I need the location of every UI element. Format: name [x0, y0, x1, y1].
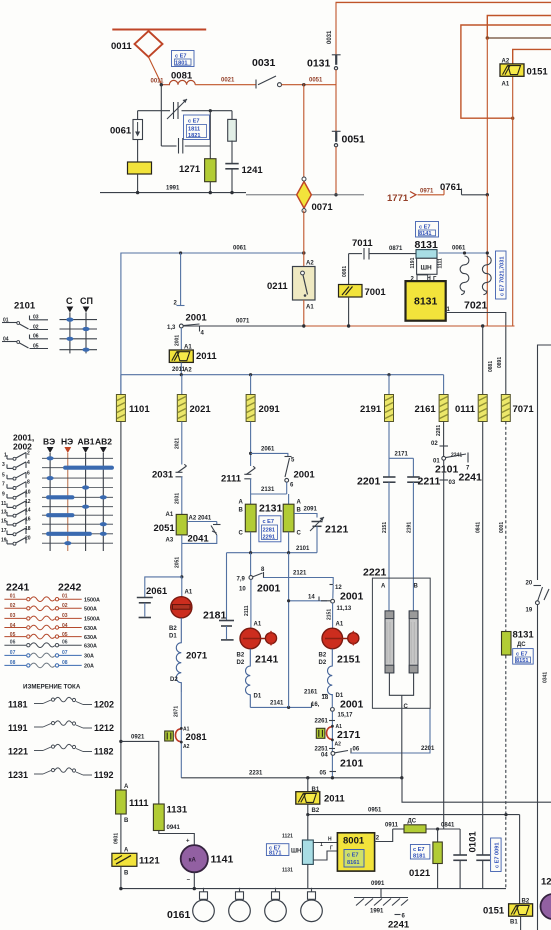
- svg-text:0111: 0111: [455, 404, 476, 415]
- series capacitor lower: [161, 111, 210, 154]
- wire 2191 below fuse: [388, 422, 390, 478]
- relay coil 0151 (top): [500, 64, 524, 76]
- svg-text:04: 04: [321, 753, 328, 759]
- svg-text:1121: 1121: [139, 856, 160, 867]
- shunt 2171: [316, 725, 334, 742]
- svg-text:0941: 0941: [167, 825, 181, 831]
- svg-text:12: 12: [541, 877, 551, 888]
- wire to relay: [180, 328, 182, 350]
- pin 12: [330, 585, 343, 599]
- svg-text:A3: A3: [166, 538, 174, 544]
- svg-text:2141: 2141: [270, 701, 284, 707]
- brake resistor block 2221 outline: [372, 578, 430, 708]
- wire B tap to capacitor 2121: [294, 514, 317, 518]
- svg-text:0071: 0071: [236, 319, 250, 325]
- resistor 1271: [205, 111, 216, 193]
- svg-text:0031: 0031: [252, 57, 276, 69]
- wire below 0151: [520, 916, 522, 930]
- svg-text:с Е7: с Е7: [516, 652, 528, 658]
- svg-text:20: 20: [526, 581, 533, 587]
- wire 2161 below fuse (2281): [443, 422, 445, 457]
- contact 2001 (1,3-4): [167, 324, 205, 337]
- svg-text:2241: 2241: [459, 472, 483, 484]
- wire 0051 to vertical: [282, 84, 337, 86]
- svg-text:D2: D2: [237, 660, 245, 666]
- svg-text:ШН: ШН: [421, 265, 433, 272]
- contact 2101 row 1: [2, 315, 48, 331]
- long vertical 0881 feeder: [486, 38, 488, 195]
- svg-text:18: 18: [25, 526, 31, 532]
- svg-text:ДС: ДС: [408, 819, 417, 825]
- svg-text:19: 19: [1, 537, 7, 543]
- svg-text:20А: 20А: [84, 664, 94, 670]
- svg-text:0931: 0931: [114, 833, 120, 844]
- label box c E7 8181: [410, 845, 430, 860]
- svg-text:2111: 2111: [244, 605, 250, 616]
- svg-text:8131: 8131: [414, 296, 438, 308]
- surge arrester 0061: [133, 111, 143, 162]
- С / СП table: [60, 296, 98, 353]
- svg-text:15: 15: [1, 518, 7, 524]
- svg-text:0991: 0991: [371, 881, 385, 887]
- svg-text:2001: 2001: [294, 470, 316, 481]
- wire 0061 right segment: [439, 252, 488, 254]
- svg-text:0001: 0001: [499, 522, 505, 533]
- capacitor at 2061: [137, 598, 153, 618]
- svg-text:0841: 0841: [476, 522, 482, 533]
- svg-text:1221: 1221: [8, 747, 28, 757]
- ground nodes: [136, 191, 139, 194]
- label box c E7 0091 rotated: [491, 838, 502, 872]
- pantograph 0011 (diamond): [135, 31, 163, 57]
- svg-text:2151: 2151: [382, 522, 388, 533]
- svg-text:A: A: [239, 500, 244, 506]
- svg-text:1500А: 1500А: [84, 598, 100, 604]
- relay 2011: [169, 350, 193, 362]
- bus 0071 orange part: [304, 325, 515, 327]
- svg-text:7001: 7001: [365, 287, 387, 298]
- bypass contactor 2041: [182, 522, 221, 544]
- capacitor 1241: [225, 164, 238, 193]
- svg-text:06: 06: [10, 640, 16, 646]
- svg-text:2101: 2101: [435, 464, 459, 476]
- contact 2101 (04-06): [321, 747, 360, 759]
- svg-text:0101: 0101: [468, 831, 479, 853]
- wire 7001 vertical: [348, 254, 350, 285]
- svg-text:19: 19: [526, 608, 533, 614]
- svg-text:2221: 2221: [363, 567, 387, 579]
- label box c E7 1811 1821: [184, 115, 210, 140]
- svg-text:0061: 0061: [233, 246, 247, 252]
- svg-text:8131: 8131: [513, 630, 535, 641]
- svg-text:08: 08: [10, 660, 16, 666]
- svg-text:A1: A1: [166, 512, 174, 518]
- ground line 1991: [100, 192, 246, 194]
- svg-text:A1: A1: [336, 622, 344, 628]
- wire 0971 red: [418, 189, 445, 195]
- node 7001: [347, 324, 350, 327]
- svg-text:2021: 2021: [190, 404, 212, 415]
- node: [306, 813, 309, 816]
- svg-text:5: 5: [2, 472, 5, 478]
- node at 512.7,118.2: [511, 117, 514, 120]
- svg-text:0211: 0211: [267, 281, 288, 292]
- ground bus 0991: [121, 888, 506, 890]
- svg-text:2241: 2241: [388, 920, 410, 930]
- svg-text:2121: 2121: [293, 571, 307, 577]
- table rows with contacts: [42, 458, 113, 543]
- svg-text:1241: 1241: [242, 165, 264, 176]
- svg-text:1101: 1101: [129, 404, 150, 415]
- wire 0071 branch down to 0211: [303, 211, 305, 267]
- label box c E7 2281 2291: [259, 516, 281, 542]
- wire 7001 to bus: [348, 297, 350, 326]
- svg-text:A1: A1: [306, 305, 314, 311]
- svg-text:13: 13: [1, 509, 7, 515]
- switch 0131: [332, 55, 341, 70]
- svg-text:2101: 2101: [14, 301, 36, 312]
- svg-text:0871: 0871: [389, 246, 403, 252]
- node at main wire: [160, 83, 163, 86]
- svg-text:A2: A2: [306, 261, 314, 267]
- disconnector 0071 (diamond): [297, 177, 312, 213]
- svg-text:C: C: [297, 531, 302, 537]
- ammeter 1141: [181, 845, 208, 872]
- svg-text:500А: 500А: [84, 607, 97, 613]
- label box c E7 8171: [266, 844, 289, 857]
- svg-text:05: 05: [62, 632, 68, 638]
- svg-text:1192: 1192: [94, 770, 114, 780]
- capacitor 2201: [383, 477, 396, 611]
- svg-text:2131: 2131: [259, 503, 283, 515]
- fuse rows: [4, 594, 100, 670]
- winding 7021 coil b: [482, 256, 491, 295]
- svg-text:0761: 0761: [440, 182, 462, 193]
- svg-text:2111: 2111: [221, 474, 242, 485]
- svg-text:4: 4: [27, 460, 30, 466]
- svg-text:1121: 1121: [282, 834, 293, 840]
- wire to ground bus: [120, 866, 122, 888]
- wire ammeter to ground bus: [193, 872, 195, 888]
- svg-text:05: 05: [10, 632, 16, 638]
- svg-text:7071: 7071: [513, 404, 535, 415]
- svg-text:18: 18: [322, 695, 329, 701]
- svg-text:с Е7 7021,7031: с Е7 7021,7031: [500, 256, 506, 296]
- capacitor 2211: [407, 458, 420, 611]
- field winding of 2141: [246, 649, 251, 708]
- column headers: [43, 437, 112, 454]
- svg-text:30А: 30А: [84, 654, 94, 660]
- wire 2101 line: [227, 532, 318, 553]
- svg-text:1991: 1991: [370, 909, 384, 915]
- wire 2021 below fuse: [181, 422, 183, 465]
- transformer winding ШН box: [410, 250, 444, 283]
- svg-text:кА: кА: [189, 858, 197, 864]
- resistor element B: [409, 611, 418, 673]
- svg-text:10: 10: [239, 587, 246, 593]
- wire 0921: [121, 741, 159, 804]
- variable capacitor: [167, 99, 196, 119]
- contact 2001 (5-6): [285, 457, 296, 489]
- wire 11,13 to motor 2151: [332, 603, 334, 628]
- capacitor 2181: [219, 553, 234, 640]
- svg-text:2161: 2161: [304, 690, 318, 696]
- vertical 512.7 down to bus 0071: [512, 76, 514, 326]
- wire down to 2081: [180, 692, 182, 778]
- svg-text:0051: 0051: [342, 134, 366, 146]
- svg-text:1: 1: [320, 842, 323, 848]
- svg-text:630А: 630А: [84, 626, 97, 632]
- bus 2011: [121, 374, 444, 376]
- contact 2001 (16,18-15,17): [311, 695, 353, 719]
- motor 2061: [171, 597, 192, 618]
- svg-text:2201: 2201: [357, 476, 381, 488]
- svg-text:D1: D1: [169, 634, 177, 640]
- svg-text:B1: B1: [510, 920, 518, 926]
- svg-text:20: 20: [25, 535, 31, 541]
- wire to 1241 branch: [196, 110, 232, 112]
- tick 05: [330, 771, 337, 773]
- svg-text:8: 8: [27, 480, 30, 486]
- node main wire to 0071 branch: [302, 83, 305, 86]
- svg-text:0881: 0881: [488, 361, 494, 372]
- svg-text:630А: 630А: [84, 643, 97, 649]
- svg-text:ДС: ДС: [517, 642, 526, 648]
- svg-text:06: 06: [62, 640, 68, 646]
- svg-text:2121: 2121: [325, 524, 349, 536]
- svg-text:0061: 0061: [110, 126, 132, 137]
- relay 1121: [112, 853, 137, 866]
- svg-text:+: +: [186, 839, 190, 845]
- svg-text:с Е7: с Е7: [263, 519, 275, 525]
- wire 0051 down to 0071 line: [335, 147, 337, 195]
- svg-text:ИЗМЕРЕНИЕ ТОКА: ИЗМЕРЕНИЕ ТОКА: [23, 684, 81, 691]
- svg-text:2242: 2242: [58, 582, 82, 594]
- arrester ground box (yellow): [128, 162, 152, 174]
- svg-text:03: 03: [62, 613, 68, 619]
- svg-text:1191: 1191: [8, 723, 28, 733]
- svg-text:ШН: ШН: [291, 849, 301, 855]
- wire down chain: [331, 711, 333, 778]
- node 0061 at 0211: [302, 251, 305, 254]
- svg-text:A2 2041: A2 2041: [189, 516, 212, 522]
- arrow of 1771: [410, 192, 416, 199]
- svg-text:D1: D1: [254, 694, 262, 700]
- nodes on ground bus: [193, 887, 196, 890]
- svg-text:A1: A1: [502, 82, 510, 88]
- svg-text:0121: 0121: [409, 868, 431, 879]
- wire 2061 to 2001 contact 5-6: [251, 453, 288, 456]
- node 2001 pin2 branch: [179, 251, 182, 254]
- wire from main bus down to 0071: [303, 84, 305, 179]
- motor 2141: [240, 628, 277, 649]
- feeder continues down: [486, 195, 488, 326]
- wire to 2051: [181, 477, 183, 515]
- svg-text:0971: 0971: [420, 189, 434, 195]
- svg-text:2031: 2031: [152, 470, 174, 481]
- svg-text:2051: 2051: [175, 557, 181, 568]
- node 2061 wire branch: [249, 452, 252, 455]
- svg-text:A2: A2: [335, 742, 342, 748]
- fuse rating labels: [84, 598, 100, 670]
- node: [334, 193, 337, 196]
- switch 2111: [244, 466, 255, 479]
- svg-text:с Е7: с Е7: [413, 847, 425, 853]
- svg-text:2191: 2191: [407, 522, 413, 533]
- svg-text:A2: A2: [184, 368, 192, 374]
- wire pin14 link: [289, 600, 327, 602]
- svg-text:Г: Г: [330, 846, 333, 852]
- wire 0061 left segment: [121, 253, 304, 395]
- wire 2161 drop: [443, 375, 445, 395]
- wire 0841 chain down: [443, 460, 445, 829]
- svg-text:12: 12: [25, 499, 31, 505]
- svg-text:2091: 2091: [304, 507, 318, 513]
- variable capacitor 2121: [310, 517, 324, 553]
- wire 0341 down: [537, 605, 539, 930]
- node 2061 branch: [180, 575, 183, 578]
- svg-text:1991: 1991: [166, 186, 180, 192]
- svg-text:B: B: [124, 818, 129, 824]
- wire 0131 to 0051: [335, 70, 337, 132]
- svg-text:2001: 2001: [340, 591, 364, 603]
- svg-text:2011: 2011: [196, 351, 217, 362]
- tick 14: [318, 597, 320, 602]
- wire 2021 drop: [181, 375, 183, 395]
- resistor 2051: [176, 514, 187, 535]
- svg-text:0061: 0061: [452, 246, 466, 252]
- svg-text:1212: 1212: [94, 723, 114, 733]
- svg-text:03: 03: [10, 613, 16, 619]
- fuse 0111: [478, 395, 487, 422]
- svg-text:1271: 1271: [179, 164, 201, 175]
- svg-text:B2: B2: [237, 653, 245, 659]
- svg-text:АВ1: АВ1: [78, 437, 95, 447]
- svg-text:2011: 2011: [324, 794, 345, 805]
- contact 2001 (7,9-10): [237, 553, 266, 593]
- svg-text:0341: 0341: [543, 672, 549, 683]
- svg-text:2151: 2151: [337, 654, 361, 666]
- wire 0111 drop from orange bus: [482, 326, 484, 395]
- wire y=25 with drop to y=118: [461, 25, 551, 118]
- bus 2231: [181, 777, 401, 779]
- node vertical rise: [287, 706, 290, 709]
- svg-text:07: 07: [62, 650, 68, 656]
- svg-text:04: 04: [62, 623, 68, 629]
- svg-text:−: −: [187, 878, 191, 884]
- svg-text:B2: B2: [312, 808, 320, 814]
- svg-text:2031: 2031: [175, 493, 181, 504]
- svg-text:11,13: 11,13: [337, 606, 352, 612]
- svg-text:08: 08: [62, 660, 68, 666]
- pin 6 / 2241: [388, 914, 410, 930]
- svg-text:8141: 8141: [419, 231, 431, 237]
- svg-text:0131: 0131: [307, 58, 331, 70]
- svg-text:2041: 2041: [188, 534, 210, 545]
- svg-text:2001: 2001: [257, 583, 281, 595]
- svg-text:0151: 0151: [527, 67, 549, 78]
- vertical link C-14-2141: [288, 553, 290, 708]
- node 0111 branch: [481, 324, 484, 327]
- relay 2011 (B coil): [296, 778, 320, 814]
- svg-text:7021: 7021: [464, 300, 488, 312]
- svg-text:7,9: 7,9: [237, 577, 246, 583]
- svg-text:1: 1: [4, 453, 7, 459]
- wire to motor 2061: [181, 577, 183, 597]
- wire 2141 bottom link: [250, 706, 311, 708]
- node 0921 branch: [119, 740, 122, 743]
- svg-text:02: 02: [431, 441, 438, 447]
- svg-text:2241: 2241: [6, 582, 30, 594]
- svg-text:2211: 2211: [418, 476, 441, 488]
- svg-text:1801: 1801: [175, 60, 187, 66]
- wire to capacitor 2061: [145, 577, 182, 598]
- svg-text:8161: 8161: [347, 860, 359, 866]
- wire 0911: [375, 829, 393, 842]
- wire 0021: [195, 84, 256, 86]
- nodes on 2101: [249, 551, 252, 554]
- wire to 1121: [120, 814, 122, 853]
- svg-text:A: A: [381, 584, 386, 590]
- svg-text:2071: 2071: [174, 706, 180, 717]
- fuse 2191: [385, 395, 394, 422]
- resistor 2131 element 2: [283, 504, 294, 532]
- disconnector 0211: [293, 267, 316, 301]
- svg-text:04: 04: [10, 623, 16, 629]
- svg-text:16,: 16,: [311, 702, 320, 708]
- wire 0111 below fuse: [482, 422, 484, 856]
- svg-text:B: B: [414, 584, 419, 590]
- node 0121: [436, 827, 439, 830]
- wire 0941: [159, 831, 195, 846]
- wire 2171 link: [389, 457, 413, 459]
- svg-text:14: 14: [25, 507, 31, 513]
- wire 0891 from pin 1: [445, 313, 506, 395]
- wire 0211 to bus 0071: [303, 300, 305, 326]
- sensor resistor ДС: [404, 825, 426, 833]
- wire horizontal y=110.7: [138, 110, 170, 112]
- svg-text:2161: 2161: [415, 404, 437, 415]
- contact 7011: [349, 238, 416, 260]
- svg-text:0051: 0051: [309, 78, 323, 84]
- svg-text:1231: 1231: [8, 770, 28, 780]
- svg-text:A2: A2: [502, 59, 510, 65]
- wire right edge contact 20/19: [538, 345, 551, 580]
- regulator 8001: [337, 833, 374, 871]
- svg-text:B: B: [124, 871, 129, 877]
- svg-text:B1: B1: [312, 787, 320, 793]
- svg-text:B: B: [297, 508, 302, 514]
- wire relay to bus 2011: [180, 363, 182, 375]
- inductor 0081: [161, 80, 195, 84]
- closed-contact bars and lenses: [46, 456, 114, 545]
- svg-text:10: 10: [25, 490, 31, 496]
- svg-text:1141: 1141: [211, 854, 234, 866]
- svg-text:05: 05: [320, 771, 327, 777]
- motor 2151: [322, 628, 359, 649]
- fuse-resistor 1111: [116, 790, 127, 814]
- svg-text:2261: 2261: [315, 719, 329, 725]
- wire roof feeder y=2.4: [336, 1, 551, 3]
- svg-text:0921: 0921: [131, 735, 145, 741]
- svg-text:01: 01: [62, 594, 68, 600]
- fuse 2161: [439, 395, 448, 422]
- svg-text:C: C: [404, 704, 409, 710]
- svg-text:06: 06: [353, 747, 360, 753]
- svg-text:8151: 8151: [516, 658, 528, 664]
- ground symbol 1991: [354, 889, 408, 906]
- field winding 2071: [176, 618, 181, 692]
